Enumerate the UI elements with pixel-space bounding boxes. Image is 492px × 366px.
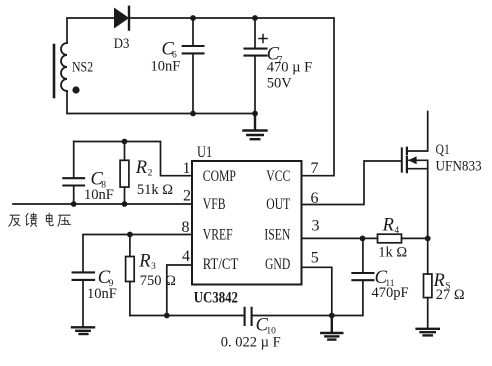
node: rail at R2 top bbox=[122, 139, 128, 145]
capacitor C6 bbox=[183, 18, 204, 114]
压 bbox=[58, 215, 71, 226]
svg-text:2: 2 bbox=[183, 187, 191, 204]
svg-text:RT/CT: RT/CT bbox=[203, 256, 239, 274]
svg-text:50V: 50V bbox=[267, 75, 293, 91]
svg-text:3: 3 bbox=[151, 262, 156, 272]
wire: diode cathode to C6 top bbox=[129, 17, 193, 19]
svg-text:6: 6 bbox=[311, 190, 319, 207]
wire: top rail to VCC pin 7 bbox=[255, 18, 334, 176]
transistor Q1 source stub bbox=[408, 160, 428, 168]
wire: riser to pin 4 RT/CT bbox=[167, 265, 192, 316]
svg-text:10nF: 10nF bbox=[87, 286, 117, 302]
svg-text:UC3842: UC3842 bbox=[194, 289, 238, 306]
ground below C7 bbox=[244, 114, 267, 140]
wire: source down to R5 bbox=[427, 169, 429, 274]
node: source line at R4 bbox=[425, 236, 431, 242]
transistor Q1 drain stub and drain wire bbox=[408, 112, 428, 152]
NS2 polarity dot bbox=[72, 86, 79, 93]
node: top rail at C7 bbox=[252, 15, 258, 21]
wire: feedback input to pin 2 VFB bbox=[13, 203, 192, 205]
svg-text:51k Ω: 51k Ω bbox=[137, 182, 173, 198]
svg-text:750 Ω: 750 Ω bbox=[140, 273, 176, 289]
resistor R5 bbox=[424, 274, 432, 328]
label C10 value bbox=[221, 316, 281, 351]
node: bottom rail at C7 bbox=[252, 111, 258, 117]
capacitor C9 bbox=[73, 272, 94, 326]
node: VREF rail at R3 bbox=[127, 232, 133, 238]
ground below R5 bbox=[417, 329, 439, 336]
label R4 value bbox=[378, 215, 407, 260]
svg-text:UFN833: UFN833 bbox=[436, 158, 482, 175]
svg-text:27 Ω: 27 Ω bbox=[436, 287, 465, 303]
capacitor C10 bbox=[245, 308, 252, 325]
svg-text:7: 7 bbox=[311, 160, 319, 177]
svg-text:R: R bbox=[135, 158, 147, 178]
label C9 value bbox=[87, 268, 117, 302]
电 bbox=[46, 213, 53, 225]
capacitor C8 bbox=[63, 142, 84, 205]
node: VFB wire at R2 bbox=[122, 201, 128, 207]
transformer winding NS2 core bar bbox=[53, 45, 56, 97]
diode D3 bbox=[114, 7, 129, 30]
svg-text:NS2: NS2 bbox=[72, 58, 93, 75]
svg-text:3: 3 bbox=[312, 217, 320, 234]
svg-text:2: 2 bbox=[148, 169, 153, 179]
label feedback voltage (反馈电压) bbox=[9, 213, 71, 226]
wire: pin 5 GND to junction bbox=[302, 267, 332, 315]
svg-text:10nF: 10nF bbox=[84, 187, 114, 203]
ground below junction bbox=[321, 316, 342, 340]
wire: pin 1 COMP to R2/C8 rail bbox=[74, 142, 192, 176]
wire: pin 6 OUT to gate bbox=[302, 161, 401, 205]
label C8 value bbox=[84, 170, 114, 203]
node: top rail at C6 bbox=[190, 15, 196, 21]
svg-text:1k Ω: 1k Ω bbox=[378, 245, 407, 261]
svg-text:R: R bbox=[382, 215, 394, 235]
svg-text:GND: GND bbox=[265, 257, 290, 274]
label C7 value bbox=[267, 45, 312, 92]
svg-text:U1: U1 bbox=[197, 143, 212, 161]
svg-text:D3: D3 bbox=[114, 36, 130, 52]
resistor R3 bbox=[126, 235, 135, 316]
wire: NS2 bottom rail bbox=[67, 91, 193, 114]
svg-text:470 µ F: 470 µ F bbox=[267, 59, 312, 75]
wire: VREF pin 8 rail bbox=[83, 235, 192, 273]
label C11 value bbox=[372, 268, 409, 301]
svg-text:VCC: VCC bbox=[266, 169, 290, 186]
反 bbox=[9, 215, 20, 226]
svg-text:1: 1 bbox=[183, 160, 191, 177]
svg-text:8: 8 bbox=[182, 219, 190, 236]
svg-text:Q1: Q1 bbox=[436, 140, 450, 157]
svg-text:4: 4 bbox=[182, 248, 190, 265]
node: bottom ground junction bbox=[329, 313, 335, 319]
wire: R4 to source line bbox=[402, 237, 428, 239]
svg-text:OUT: OUT bbox=[266, 196, 290, 213]
馈 bbox=[26, 213, 37, 226]
node: ISEN at C11/R4 bbox=[360, 236, 366, 242]
wire top rail left: NS2 top to diode anode bbox=[67, 18, 114, 43]
transistor Q1 channel segments bbox=[406, 148, 408, 173]
transistor Q1 gate bar bbox=[401, 148, 403, 171]
resistor R4 bbox=[378, 234, 402, 243]
ground below C9 bbox=[72, 327, 94, 334]
label R5 value bbox=[433, 271, 465, 303]
transformer winding NS2 bbox=[61, 43, 67, 91]
svg-text:VREF: VREF bbox=[203, 227, 233, 244]
label R2 value bbox=[135, 158, 173, 198]
node: bottom rail at RT/CT riser bbox=[164, 313, 170, 319]
wire: bottom rail R3 to C10 bbox=[130, 315, 244, 317]
wire: junction to C11 bottom bbox=[332, 280, 363, 315]
label C6 value bbox=[151, 40, 181, 75]
svg-text:ISEN: ISEN bbox=[264, 227, 290, 244]
svg-text:10nF: 10nF bbox=[151, 58, 181, 74]
wire: C6 bottom to C7 bottom bbox=[193, 113, 255, 115]
svg-text:470pF: 470pF bbox=[372, 285, 409, 301]
op-amp controller U1 UC3842 body bbox=[192, 161, 302, 285]
node: VFB wire at C8 bbox=[71, 201, 77, 207]
svg-text:4: 4 bbox=[394, 226, 399, 236]
wire: C10 to ground junction bbox=[252, 315, 332, 317]
capacitor C11 bbox=[352, 238, 373, 280]
resistor R2 bbox=[120, 142, 129, 205]
label R3 value bbox=[138, 252, 176, 290]
svg-text:R: R bbox=[138, 252, 150, 272]
transistor Q1 body arrow bbox=[408, 156, 428, 164]
svg-text:VFB: VFB bbox=[203, 196, 226, 213]
capacitor C7 (polarized) bbox=[245, 18, 268, 114]
svg-text:COMP: COMP bbox=[203, 169, 236, 186]
node: bottom rail at C6 bbox=[190, 111, 196, 117]
wire: pin 3 ISEN to R4 bbox=[302, 237, 378, 239]
svg-text:5: 5 bbox=[311, 249, 319, 266]
wire: C6 top to C7 top bbox=[193, 17, 255, 19]
svg-text:0. 022 µ F: 0. 022 µ F bbox=[221, 335, 281, 351]
